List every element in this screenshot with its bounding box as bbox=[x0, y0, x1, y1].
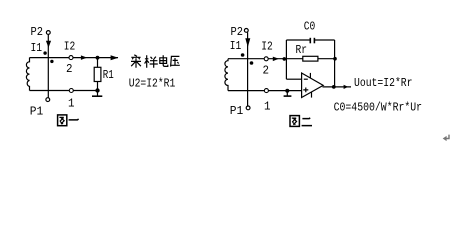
junction node (bottom of R1) bbox=[95, 88, 99, 92]
output arrow bbox=[344, 85, 349, 89]
wire: bottom rail bbox=[30, 90, 99, 92]
terminal P2 (right) bbox=[244, 29, 248, 33]
inductor L1: CT secondary winding bbox=[26, 58, 29, 91]
label: 采样电压 (sampling voltage) drawn glyphs bbox=[131, 55, 180, 68]
样 bbox=[145, 55, 158, 68]
wire: op-amp output bbox=[323, 86, 352, 88]
polarity dot (primary) bbox=[241, 53, 245, 57]
output arrow (sampling voltage) bbox=[111, 55, 119, 60]
wire: top rail to Rr bbox=[228, 58, 303, 60]
svg-text:I2: I2 bbox=[64, 40, 76, 54]
junction node (Rr to feedback vertical) bbox=[333, 57, 337, 61]
svg-text:2: 2 bbox=[263, 64, 270, 78]
resistor Rr bbox=[303, 56, 318, 61]
current arrow I2 bbox=[273, 57, 279, 62]
svg-text:Rr: Rr bbox=[296, 43, 308, 57]
svg-text:1: 1 bbox=[264, 100, 271, 114]
一 bbox=[69, 119, 79, 120]
ground (bottom of R1) bbox=[92, 95, 102, 97]
压 bbox=[171, 56, 180, 66]
wire: primary conductor P2-P1 vertical bbox=[47, 35, 49, 98]
junction node (inverting summing point) bbox=[283, 57, 287, 61]
svg-text:C0: C0 bbox=[304, 20, 316, 34]
capacitor C0 right wire bbox=[315, 39, 335, 41]
paragraph return mark (word processor) bbox=[444, 135, 449, 139]
wire: feedback right vertical to output bbox=[334, 40, 336, 87]
op-amp plus sign bbox=[303, 88, 308, 93]
电 bbox=[160, 55, 168, 66]
svg-text:P1: P1 bbox=[30, 105, 44, 119]
svg-text:I1: I1 bbox=[230, 39, 242, 53]
wire: bottom rail to non-inverting input bbox=[228, 90, 302, 92]
inductor L2: CT secondary winding bbox=[225, 59, 228, 91]
polarity dot (secondary) bbox=[250, 61, 254, 65]
op-amp power pin (bottom) bbox=[311, 92, 313, 98]
caption 图一 (Figure 1) bbox=[58, 115, 79, 126]
wire: to inverting input bbox=[286, 78, 301, 80]
polarity dot (primary) bbox=[43, 51, 46, 54]
图 box bbox=[58, 115, 67, 126]
采 bbox=[131, 55, 141, 68]
二 bbox=[302, 118, 312, 126]
terminal P1 (left) bbox=[46, 98, 50, 102]
terminal P2 (left) bbox=[46, 31, 50, 35]
svg-text:Uout=I2*Rr: Uout=I2*Rr bbox=[354, 76, 413, 90]
wire: top rail bbox=[30, 57, 119, 59]
ground (non-inverting input) bbox=[286, 91, 288, 96]
svg-text:P2: P2 bbox=[231, 25, 244, 39]
svg-text:P1: P1 bbox=[230, 104, 244, 118]
svg-text:R1: R1 bbox=[103, 68, 114, 82]
capacitor C0 plates bbox=[309, 38, 311, 44]
svg-text:2: 2 bbox=[66, 62, 73, 76]
node 1 terminal circle bbox=[264, 89, 268, 93]
svg-text:P2: P2 bbox=[31, 25, 44, 39]
op-amp power pin (top) bbox=[309, 73, 311, 78]
svg-text:I2: I2 bbox=[261, 40, 273, 54]
svg-text:C0=4500/W*Rr*Ur: C0=4500/W*Rr*Ur bbox=[334, 100, 423, 114]
current arrow I2 (rightward on top rail) bbox=[81, 55, 87, 60]
terminal P1 (right) bbox=[246, 106, 250, 110]
current arrow I1 (downward) bbox=[245, 38, 250, 47]
resistor R1 bbox=[97, 58, 99, 68]
node 1 terminal circle bbox=[69, 89, 73, 93]
图 box bbox=[290, 116, 299, 127]
op-amp minus sign bbox=[304, 78, 308, 80]
op-amp U1 bbox=[302, 73, 324, 98]
junction node (ground tap on + input) bbox=[285, 89, 289, 93]
wire: primary conductor P2-P1 vertical bbox=[247, 32, 249, 106]
svg-text:U2=I2*R1: U2=I2*R1 bbox=[129, 76, 176, 90]
current arrow I1 (downward) bbox=[46, 41, 51, 48]
junction node (output/feedback) bbox=[332, 85, 336, 89]
capacitor C0 top row: left wire bbox=[286, 39, 310, 41]
svg-text:1: 1 bbox=[68, 97, 75, 111]
svg-text:I1: I1 bbox=[31, 41, 43, 55]
node 2 terminal circle bbox=[264, 57, 268, 61]
caption 图二 (Figure 2) bbox=[290, 116, 312, 127]
polarity dot (secondary) bbox=[50, 60, 53, 63]
node 2 terminal circle bbox=[69, 56, 73, 60]
junction node (top of R1) bbox=[96, 56, 100, 60]
wire: vertical branch to feedback / inverting input bbox=[285, 40, 287, 79]
